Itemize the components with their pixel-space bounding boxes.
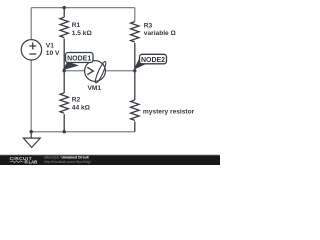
svg-text:10 V: 10 V (46, 50, 60, 57)
svg-text:1.5 kΩ: 1.5 kΩ (72, 30, 93, 37)
wire left rail lower (V1 bottom to bottom wire) (30, 60, 32, 132)
label R1 value (72, 22, 93, 37)
svg-text:LAB: LAB (29, 159, 38, 164)
wire middle left (node1 to VM1) (64, 70, 84, 72)
banner logo resistor zigzag (10, 161, 24, 163)
label R2 value (72, 97, 91, 112)
junction dot node A (node1) (62, 69, 65, 72)
svg-text:mystery resistor: mystery resistor (143, 109, 195, 116)
svg-text:NODE1: NODE1 (67, 55, 91, 62)
svg-text:VM1: VM1 (88, 85, 102, 92)
svg-text:44 kΩ: 44 kΩ (72, 104, 91, 111)
resistor R3 (131, 22, 139, 71)
svg-text:NODE2: NODE2 (141, 57, 165, 64)
voltage source V1 (21, 40, 41, 60)
label R3 value (144, 22, 177, 37)
svg-text:V1: V1 (46, 43, 54, 50)
svg-text:http://circuitlab.com/c/5pvd9d: http://circuitlab.com/c/5pvd9dg/ (44, 160, 91, 164)
resistor R2 (60, 71, 68, 132)
ground (23, 132, 40, 148)
junction dot top (R1 tap) (62, 6, 65, 9)
voltmeter VM1 (85, 61, 108, 84)
junction dot bottom left (ground tap) (30, 130, 33, 133)
resistor R1 (60, 8, 68, 71)
wire top horizontal (V1 top to R3 top) (31, 7, 135, 9)
svg-text:variable Ω: variable Ω (144, 30, 177, 37)
node NODE1 flag (62, 53, 93, 71)
svg-text:R1: R1 (72, 22, 81, 29)
node NODE2 flag (133, 54, 166, 70)
banner logo LAB (25, 160, 28, 163)
junction dot bottom (R2 bottom) (62, 130, 65, 133)
label V1 value (46, 43, 60, 58)
wire left rail upper (top corner down to V1) (30, 8, 32, 40)
svg-text:R3: R3 (144, 22, 153, 29)
banner background (0, 155, 220, 165)
wire right rail (R3 top corner) (134, 8, 136, 22)
wire bottom horizontal (31, 131, 135, 133)
wire middle right (VM1 to node2) (105, 70, 134, 72)
svg-text:R2: R2 (72, 97, 81, 104)
junction dot node B (node2) (133, 69, 136, 72)
mystery resistor (131, 71, 139, 132)
